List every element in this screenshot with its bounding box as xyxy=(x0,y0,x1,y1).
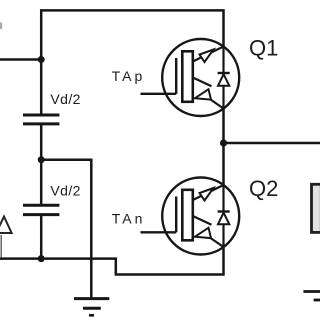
svg-text:Vd/2: Vd/2 xyxy=(50,91,80,107)
svg-text:Q2: Q2 xyxy=(249,176,278,201)
svg-text:TAn: TAn xyxy=(112,210,146,226)
svg-text:Vd/2: Vd/2 xyxy=(50,183,80,199)
svg-text:TAp: TAp xyxy=(112,68,146,84)
svg-text:Q1: Q1 xyxy=(249,36,278,61)
